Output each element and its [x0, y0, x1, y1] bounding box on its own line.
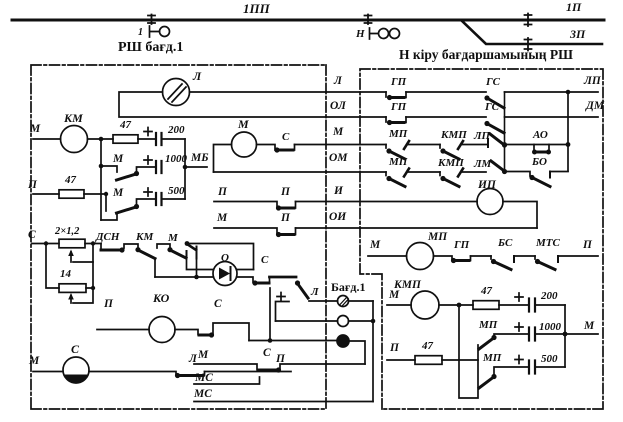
svg-text:М: М: [197, 349, 209, 361]
svg-text:Л: Л: [192, 69, 202, 83]
svg-text:МТС: МТС: [535, 237, 561, 249]
svg-text:М: М: [332, 126, 344, 138]
lamp2 wires: [276, 320, 374, 322]
КМП contact row М: [440, 129, 488, 159]
svg-text:3П: 3П: [569, 27, 586, 41]
relay М: [232, 117, 257, 157]
upper rail left: [187, 259, 214, 270]
signal 1 mast symbol: [138, 26, 170, 38]
svg-text:47: 47: [64, 174, 77, 186]
ГС contact upper: [484, 76, 504, 108]
gap net labels Л ОЛ М ОМ И ОИ: [329, 75, 348, 223]
АО БО block frame: [502, 92, 570, 171]
wire row Л mid: [406, 91, 486, 93]
svg-text:П: П: [582, 239, 593, 251]
relay КМ: [61, 111, 88, 153]
Л contact to lamp1: [295, 280, 319, 298]
М relay left elbow to row ОМ: [214, 145, 232, 173]
svg-text:200: 200: [540, 290, 558, 302]
svg-text:П: П: [280, 186, 291, 198]
svg-text:С: С: [28, 229, 36, 241]
svg-text:Л: Л: [333, 75, 343, 87]
wire R47 to contact cluster: [84, 193, 106, 195]
svg-text:П: П: [389, 342, 400, 354]
svg-text:200: 200: [167, 124, 185, 136]
svg-text:И: И: [333, 185, 344, 197]
node МБ bus: [183, 165, 188, 170]
ЛП contact row М: [473, 130, 507, 148]
bypass top wire to diode right leg: [187, 244, 254, 270]
МП contact row ОМ: [386, 156, 440, 187]
Л contact С row: [175, 353, 205, 378]
ГП contact МП row: [451, 239, 471, 263]
КМ contact: [124, 231, 155, 259]
МП contact row М: [386, 128, 440, 159]
wire R47 to cap200: [138, 138, 155, 140]
wire М relay right to С contact: [257, 145, 276, 151]
svg-text:ОЛ: ОЛ: [330, 100, 347, 112]
svg-text:ГС: ГС: [484, 101, 500, 113]
svg-text:КМП: КМП: [437, 157, 464, 169]
БО contact: [505, 156, 569, 187]
signal lamp 2: [338, 316, 349, 327]
svg-text:М: М: [237, 117, 249, 131]
svg-text:М: М: [112, 187, 124, 199]
ЛМ contact row ОМ: [473, 158, 507, 174]
svg-text:КМП: КМП: [440, 129, 467, 141]
lamp3 right wire to М-С row: [349, 341, 365, 364]
right cap bus: [564, 305, 566, 367]
svg-text:ОМ: ОМ: [329, 152, 348, 164]
lamp bus right: [372, 301, 374, 402]
capacitor 500: [515, 353, 558, 374]
svg-text:1000: 1000: [539, 321, 562, 333]
row М to right box: [295, 144, 387, 146]
МП contact 500 row: [479, 352, 528, 388]
svg-text:Н кіру бағдаршамының РШ: Н кіру бағдаршамының РШ: [399, 47, 573, 62]
svg-text:Л: Л: [310, 286, 319, 298]
svg-text:П: П: [280, 212, 291, 224]
lamp3 feed wire: [249, 340, 337, 342]
svg-text:47: 47: [421, 340, 434, 352]
svg-text:МП: МП: [388, 128, 408, 140]
svg-text:М: М: [167, 232, 179, 244]
svg-text:М: М: [216, 212, 228, 224]
svg-text:МС: МС: [194, 372, 213, 384]
insulated joint on 1ПП at x368: [365, 15, 372, 25]
svg-text:47: 47: [119, 119, 132, 131]
wire to ДСН: [85, 243, 101, 245]
svg-text:С: С: [282, 131, 290, 143]
МС row 1: [194, 372, 260, 384]
svg-text:1: 1: [138, 27, 143, 38]
svg-text:М: М: [369, 239, 381, 251]
svg-text:ЛП: ЛП: [583, 75, 602, 87]
svg-text:С: С: [261, 254, 269, 266]
svg-text:АО: АО: [532, 129, 548, 141]
КМ armature drop to diode row: [154, 259, 156, 278]
svg-text:ГП: ГП: [453, 239, 470, 251]
polarized relay С (half filled): [63, 342, 89, 383]
КМП contact row ОМ: [437, 157, 486, 187]
ДСН contact: [95, 231, 125, 253]
svg-text:КМ: КМ: [63, 111, 83, 125]
wire cap200 to right bus: [162, 138, 186, 140]
С contact КО row: [199, 298, 249, 341]
svg-text:ЛМ: ЛМ: [473, 158, 493, 170]
capacitor 1000: [144, 153, 188, 173]
lower rail right to С contact: [237, 277, 253, 283]
2x1,2 wiper arm: [73, 244, 93, 263]
svg-text:14: 14: [60, 268, 72, 280]
svg-text:С: С: [214, 298, 222, 310]
capacitor 200 right: [515, 290, 558, 312]
svg-text:КО: КО: [152, 291, 170, 305]
АО bridge contact: [532, 129, 551, 155]
svg-text:Бағд.1: Бағд.1: [331, 280, 365, 294]
wire С relay to Л contact: [89, 372, 176, 376]
МП caps cluster bus: [459, 305, 478, 398]
riser to cap500: [137, 199, 155, 207]
lamp1 wires: [309, 300, 373, 302]
svg-text:МС: МС: [193, 388, 212, 400]
14 wiper arm: [73, 288, 93, 303]
capacitor 500: [144, 185, 185, 205]
svg-text:ГП: ГП: [390, 76, 407, 88]
vertical from Л cluster to lamp3 wire: [269, 288, 271, 341]
rail line 1ПП/1П: [12, 19, 604, 22]
М stub right: [565, 333, 598, 335]
left leg into lower rail: [196, 259, 198, 278]
svg-text:БС: БС: [497, 237, 513, 249]
svg-text:Н: Н: [355, 28, 365, 40]
lamp Л: [163, 69, 203, 106]
М contact (1000 row) fixed post: [101, 166, 117, 172]
svg-text:М: М: [28, 355, 40, 367]
svg-text:КМ: КМ: [135, 231, 154, 243]
П drop into cluster: [105, 194, 107, 211]
capacitor 1000: [515, 321, 562, 341]
signal Н mast symbol: [355, 28, 400, 40]
ИП right loop to ОИ row: [503, 202, 537, 229]
svg-text:2×1,2: 2×1,2: [54, 226, 80, 237]
svg-text:500: 500: [168, 185, 185, 197]
resistor 47 КМ row: [113, 119, 138, 143]
resistor 47 КМП row: [473, 285, 499, 309]
wire cap500 to bus: [162, 198, 186, 200]
МБ stub: [185, 166, 207, 168]
М contact (С row): [157, 232, 187, 259]
capacitor 200: [144, 124, 185, 145]
relay ИП: [477, 179, 503, 215]
wire 14 to node: [86, 262, 93, 288]
М pivot on bypass wire: [185, 241, 190, 246]
lamp with diode О: [213, 252, 237, 286]
svg-text:П: П: [217, 186, 228, 198]
svg-text:ИП: ИП: [477, 179, 497, 191]
ГП bridge row Л: [386, 76, 407, 100]
row ОМ to right box: [214, 171, 387, 173]
svg-text:КМП: КМП: [393, 279, 422, 291]
left contact bus from КМ node: [100, 139, 102, 220]
lower rail left: [155, 276, 213, 278]
МС row 2: [193, 388, 373, 402]
ГС common bus: [504, 92, 506, 171]
svg-text:О: О: [221, 252, 229, 264]
ГС contact lower: [484, 101, 504, 133]
svg-text:РШ бағд.1: РШ бағд.1: [118, 40, 183, 55]
БС contact: [491, 237, 535, 270]
signal lamp 1 hatched: [338, 296, 349, 307]
row ОЛ to ДМ: [505, 116, 599, 118]
left relay cabinet box dash-dot: [31, 65, 326, 409]
svg-text:47: 47: [480, 285, 493, 297]
svg-text:ДСН: ДСН: [95, 231, 120, 243]
svg-text:МП: МП: [482, 352, 502, 364]
node at 101,139: [99, 137, 104, 142]
resistor 14: [59, 268, 86, 292]
node on bus: [99, 164, 104, 169]
МП contact 1000 row: [478, 319, 528, 349]
svg-text:М: М: [583, 320, 595, 332]
С contact (lamp feed): [252, 254, 269, 286]
svg-text:С: С: [71, 342, 80, 356]
wire П stub: [33, 193, 59, 195]
insulated joint on 1П at x527: [525, 14, 532, 27]
row Л to ЛП: [505, 91, 599, 93]
plus stub to lamp2: [276, 293, 290, 322]
wire to П end: [205, 371, 292, 373]
relay КМП: [393, 279, 439, 319]
resistor 2x1,2: [54, 226, 85, 248]
wire КМ to R47: [88, 138, 114, 140]
svg-text:1П: 1П: [566, 0, 582, 14]
ГП bridge row ОЛ: [386, 101, 407, 125]
svg-text:МП: МП: [388, 156, 408, 168]
svg-text:М: М: [29, 123, 41, 135]
М contact (1000 row) armature: [117, 174, 137, 180]
svg-text:МП: МП: [427, 231, 448, 243]
svg-text:500: 500: [541, 353, 558, 365]
svg-text:С: С: [263, 347, 271, 359]
wire row ОЛ mid: [406, 116, 486, 118]
bus elbow to lower М contact: [101, 214, 117, 220]
wire КО to С contact: [175, 330, 198, 335]
parallel branch to 14: [46, 244, 59, 289]
svg-text:БО: БО: [531, 156, 547, 168]
rail branch to 3П: [462, 21, 602, 44]
riser to cap1000: [137, 167, 155, 174]
thick link to Л contact: [270, 276, 297, 279]
wire М stub: [33, 138, 61, 140]
svg-text:П: П: [103, 298, 114, 310]
П/И row: [214, 186, 477, 211]
svg-text:М: М: [112, 153, 124, 165]
М contact (500 row) armature: [117, 207, 137, 213]
relay КО: [149, 291, 175, 343]
svg-text:МП: МП: [478, 319, 498, 331]
svg-text:1000: 1000: [165, 153, 188, 165]
svg-text:1ПП: 1ПП: [243, 1, 271, 16]
С contact row М: [274, 131, 294, 153]
insulated joint on 1ПП at x150: [148, 15, 155, 25]
row М-С to lamps: [194, 347, 365, 373]
svg-text:ДМ: ДМ: [585, 100, 605, 112]
svg-text:МБ: МБ: [190, 152, 209, 164]
relay МП: [407, 231, 449, 270]
wire lamp Л left down to row ОЛ: [119, 92, 386, 117]
М/ОИ row: [214, 212, 537, 237]
svg-text:П: П: [27, 179, 38, 191]
resistor 47 П row: [59, 174, 84, 198]
wire lamp Л right to row Л: [190, 91, 387, 93]
signal lamp 3 filled: [337, 335, 349, 347]
svg-text:ОИ: ОИ: [329, 211, 347, 223]
svg-text:ГП: ГП: [390, 101, 407, 113]
upper rail right: [237, 269, 254, 271]
МТС contact: [535, 237, 598, 270]
right capacitor bus: [184, 139, 186, 199]
insulated joint on 3П at x527: [525, 38, 532, 51]
svg-text:ГС: ГС: [485, 76, 501, 88]
right relay cabinet box dash-dot: [360, 69, 603, 409]
